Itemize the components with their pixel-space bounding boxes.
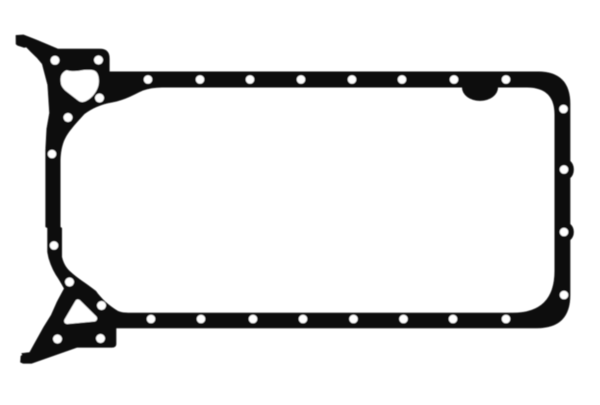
big opening in top-left wing (61, 70, 99, 102)
bolt holes: bottom band (147, 315, 156, 324)
bolt holes: top band (144, 75, 153, 84)
bolt holes: top-left wing (51, 56, 60, 65)
bolt holes: bottom-left wing (65, 278, 74, 287)
bolt holes: right band (559, 105, 568, 114)
gasket body: outer silhouette minus inner opening (evenodd) (16, 35, 574, 364)
triangular opening in bottom-left wing (67, 302, 94, 321)
bolt holes: left band (48, 150, 57, 159)
